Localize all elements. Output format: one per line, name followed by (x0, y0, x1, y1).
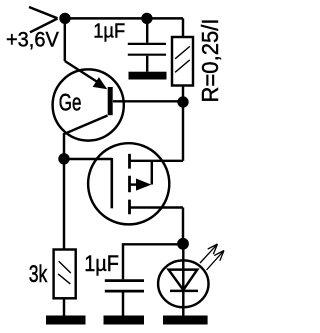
transistor Q1 emitter wire with arrow (65, 61, 99, 83)
wire top rail (65, 17, 183, 19)
wire drain up to node C (182, 102, 184, 161)
wire C1 bottom lead (146, 56, 148, 72)
light emission arrow 1 (200, 244, 218, 263)
resistor R2 body (54, 250, 76, 299)
mosfet Q2 gate electrode (111, 158, 114, 208)
wire gate lead (64, 158, 112, 160)
wire C2 bottom lead (122, 293, 124, 316)
led D1 circle (158, 260, 208, 307)
resistor R1 body (172, 37, 193, 86)
wire left drop from +3.6V node to emitter (64, 18, 66, 61)
svg-text:1µF: 1µF (93, 20, 125, 42)
ground bar for C2 (104, 316, 145, 325)
led D1 cathode bar (170, 290, 198, 293)
mosfet Q2 body arrow line (130, 183, 137, 185)
transistor Q1 base bar (108, 87, 113, 115)
ground bar for C1 (129, 72, 167, 80)
capacitor C2 plates (105, 281, 144, 292)
wire LED cathode down (182, 270, 184, 316)
wire source down to node E (182, 208, 184, 244)
supply terminal arrow (29, 7, 58, 32)
svg-text:+3,6V: +3,6V (6, 29, 59, 52)
node A supply junction (59, 13, 70, 24)
node E source-LED-C2 junction (177, 238, 189, 250)
wire LED anode from node E (182, 244, 184, 270)
ground bar for LED (163, 316, 208, 325)
svg-text:Ge: Ge (59, 91, 82, 117)
transistor Q1 collector wire (64, 116, 108, 159)
node C base-R1 junction (177, 96, 188, 107)
led D1 triangle (169, 270, 198, 290)
mosfet Q2 drain line (130, 160, 184, 162)
node B C1 top junction (141, 13, 152, 24)
wire R2 bottom lead (63, 298, 65, 315)
svg-text:1µF: 1µF (84, 251, 119, 276)
resistor R1 slashes (175, 46, 190, 72)
wire C1 top lead (146, 18, 148, 42)
wire base lead Q1 (113, 100, 183, 102)
mosfet Q2 body tie vertical (151, 161, 153, 185)
node D collector-gate junction (58, 153, 69, 164)
wire top rail elbow down to R1 (182, 18, 184, 37)
svg-text:R=0,25/I: R=0,25/I (197, 19, 223, 103)
mosfet Q2 circle (88, 143, 169, 224)
capacitor C1 plates (128, 44, 166, 55)
light emission arrow 2 (207, 251, 225, 271)
wire C2 top lead (123, 244, 183, 279)
svg-text:3k: 3k (29, 262, 48, 288)
resistor R2 slashes (58, 261, 71, 284)
mosfet Q2 body arrow head (136, 179, 151, 191)
transistor Q1 circle (53, 69, 124, 140)
wire R1 bottom lead (182, 86, 184, 103)
mosfet Q2 source line (130, 206, 184, 208)
ground bar for R2 (46, 316, 86, 325)
mosfet Q2 channel segments (128, 154, 131, 214)
wire node D down to R2 (63, 159, 65, 250)
